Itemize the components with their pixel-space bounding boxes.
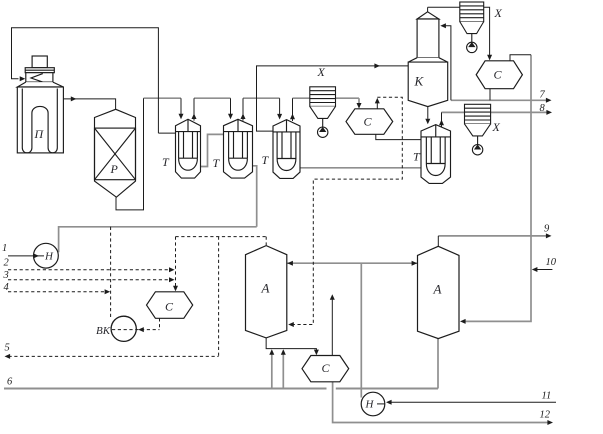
wire column K bottom to T4: [427, 106, 429, 119]
column К: [408, 12, 448, 107]
wire C2 gas to A1 dashed: [292, 97, 403, 324]
compressor ВК: [111, 316, 136, 341]
separator С2: [346, 109, 393, 135]
wire separator C3 to compressor VK dashed: [159, 318, 161, 329]
svg-text:12: 12: [540, 410, 551, 421]
svg-text:К: К: [414, 74, 425, 89]
wire T4 tube outlet riser: [441, 112, 443, 127]
wire reflux return to column K: [445, 26, 451, 101]
wire stream 6 gas feed line: [4, 387, 327, 389]
wire stream 7: [451, 99, 548, 101]
air cooler Х2: [310, 87, 336, 138]
pump Н1: [34, 243, 59, 268]
pump Н2: [361, 392, 385, 416]
wire T1 tube inlet drop: [180, 98, 182, 114]
separator С1: [476, 61, 522, 89]
wire C1 reflux up-over: [510, 55, 531, 61]
separator С4: [302, 356, 349, 382]
wire reactor bottom outlet riser: [116, 98, 144, 210]
svg-text:Р: Р: [110, 162, 119, 176]
wire C1 bottoms to stream 7: [489, 89, 491, 101]
svg-text:С: С: [165, 300, 174, 314]
wire stream 12 from C4: [333, 382, 550, 423]
wire stream 1 to pump N1: [8, 255, 44, 257]
wire T1 shell top out to riser: [158, 132, 175, 134]
wire T3 tube outlet riser: [292, 98, 294, 121]
furnace П: [17, 56, 63, 153]
absorber А1: [246, 246, 287, 338]
wire T2 tube outlet riser: [242, 98, 244, 120]
wire stream 4 dashed: [8, 291, 107, 293]
wire stream 11 to pump N2: [392, 401, 557, 403]
wire column K overhead to X1: [428, 6, 460, 8]
wire stream 3 dashed: [8, 279, 172, 281]
wire stream 8 from T4 tube out: [442, 111, 549, 113]
svg-text:П: П: [34, 127, 45, 141]
svg-text:Х: Х: [494, 6, 503, 20]
heat exchanger Т2: [224, 119, 253, 178]
heat exchanger Т4: [421, 125, 451, 184]
svg-text:С: С: [322, 361, 331, 375]
wire reactor effluent header to exchangers: [144, 97, 182, 99]
wire separator C1 gas down to absorber A2: [464, 55, 532, 322]
wire stream 5 dashed: [218, 237, 220, 357]
wire stream 9 from A2 top: [438, 235, 548, 237]
svg-text:Н: Н: [44, 251, 54, 263]
wire C2 bottoms to T4 shell: [376, 134, 421, 139]
svg-text:9: 9: [544, 224, 550, 235]
wire T3 tube inlet drop: [279, 98, 281, 114]
wire T4 shell out to T3 shell in: [300, 167, 421, 169]
air cooler Х3: [465, 104, 491, 155]
wire T3 shell out to column K feed: [257, 66, 409, 131]
wire furnace outlet to reactor: [63, 99, 115, 110]
svg-text:ВК: ВК: [96, 325, 111, 337]
wire A2 bottoms down: [437, 339, 439, 389]
svg-text:4: 4: [4, 282, 10, 293]
svg-text:6: 6: [7, 377, 13, 388]
svg-text:Х: Х: [492, 120, 501, 134]
wire pump N1 discharge to recycle riser: [59, 227, 257, 253]
wire A1 overhead manifold dashed: [176, 236, 267, 238]
wire T2 tube inlet drop: [230, 98, 232, 114]
wire stream 2 dashed: [8, 269, 172, 271]
separator С3: [147, 292, 193, 319]
heat exchanger Т1: [176, 119, 201, 178]
svg-text:8: 8: [540, 103, 546, 114]
wire absorbent distribution A1-A2: [287, 262, 418, 264]
svg-text:5: 5: [5, 343, 10, 354]
svg-text:1: 1: [2, 243, 7, 254]
wire X2 outlet down to separator C2: [358, 98, 360, 105]
svg-text:С: С: [494, 68, 503, 82]
air cooler Х1: [460, 2, 484, 53]
svg-text:Х: Х: [317, 65, 326, 79]
svg-text:Н: Н: [365, 399, 375, 411]
wire pump N2 riser: [360, 263, 362, 397]
svg-text:3: 3: [3, 270, 9, 281]
wire compressor VK riser dashed: [110, 227, 112, 317]
svg-text:С: С: [364, 115, 373, 129]
wire A1 bottoms to separator C4: [266, 338, 316, 352]
wire gas risers into A1 bottom: [271, 351, 273, 389]
svg-text:11: 11: [542, 391, 552, 402]
reactor Р: [95, 109, 136, 197]
svg-text:2: 2: [4, 258, 10, 269]
wire C2 gas up arrow: [376, 103, 378, 109]
wire manifold drop to separator C3 dashed: [175, 237, 177, 288]
svg-text:А: А: [433, 282, 442, 297]
svg-text:10: 10: [546, 257, 557, 268]
wire stream 10: [536, 269, 552, 271]
wire X1 outlet down to separator C1: [484, 7, 490, 56]
wire top feed line to furnace: [12, 28, 159, 133]
absorber А2: [418, 246, 460, 338]
wire T2 shell out down to feed junction: [253, 166, 257, 227]
wire C4 gas vent arrow: [331, 299, 333, 356]
heat exchanger Т3: [273, 120, 300, 179]
svg-text:А: А: [261, 281, 270, 296]
wire T1 tube outlet riser: [193, 98, 195, 120]
wire T1 shell out to T2 shell in: [201, 134, 224, 166]
svg-text:7: 7: [540, 90, 546, 101]
